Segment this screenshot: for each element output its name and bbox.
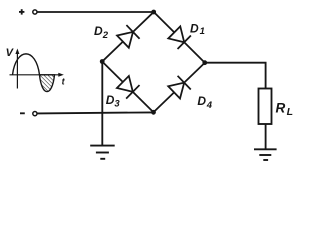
svg-text:3: 3 xyxy=(114,98,120,109)
node left junction dot xyxy=(100,59,105,64)
svg-text:R: R xyxy=(276,101,286,116)
diode D1 (top node to right node) xyxy=(147,5,211,69)
wire resistor to ground xyxy=(265,124,267,149)
svg-text:2: 2 xyxy=(102,30,109,41)
svg-text:t: t xyxy=(62,76,66,86)
diode D2 (left node to top node) xyxy=(96,5,160,68)
wire top (+ terminal to bridge top node) xyxy=(38,11,154,13)
node top junction dot xyxy=(151,10,156,15)
diode D4 (bottom node to right node) xyxy=(147,56,212,119)
source waveform V axis xyxy=(15,49,19,89)
source waveform t axis xyxy=(10,73,64,77)
node bottom junction dot xyxy=(151,110,156,115)
svg-text:V: V xyxy=(6,47,15,59)
svg-text:L: L xyxy=(287,106,293,118)
minus input terminal xyxy=(33,112,37,116)
node right junction dot xyxy=(202,60,207,65)
minus sign xyxy=(20,112,25,114)
svg-text:D: D xyxy=(190,22,199,36)
wire left node to ground xyxy=(101,62,103,146)
svg-text:D: D xyxy=(94,24,103,38)
ground left xyxy=(90,146,115,159)
ground right xyxy=(254,149,277,160)
svg-text:4: 4 xyxy=(206,100,213,111)
svg-text:D: D xyxy=(197,94,206,108)
diode D3 (left node to bottom node) xyxy=(96,55,161,119)
resistor RL xyxy=(259,89,272,125)
sine wave negative half (hatched) xyxy=(40,75,55,92)
svg-text:1: 1 xyxy=(200,26,205,37)
sine wave positive half xyxy=(13,54,40,75)
wire bottom (- terminal to bridge bottom node) xyxy=(38,112,154,113)
plus sign xyxy=(19,9,24,14)
plus input terminal xyxy=(33,10,37,14)
wire right node to resistor xyxy=(205,63,266,89)
